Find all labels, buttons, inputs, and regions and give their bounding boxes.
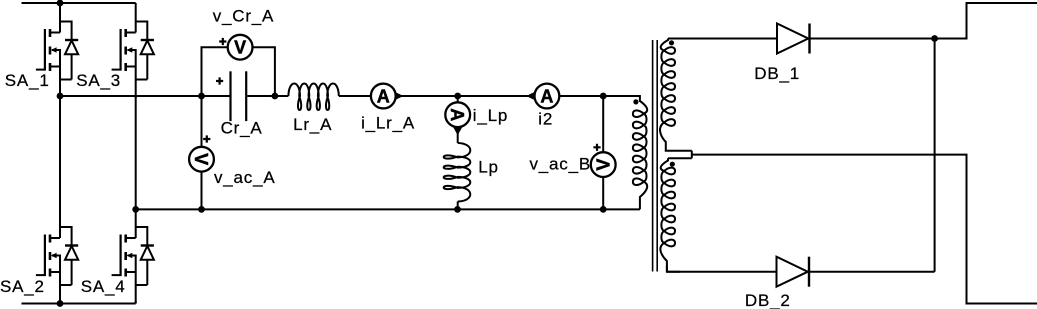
svg-text:V: V xyxy=(594,159,614,171)
node v_ac_B bottom junction xyxy=(600,206,607,213)
wire inductor to ammeter xyxy=(339,95,371,97)
polarity plus v_ac_B xyxy=(593,144,600,151)
node bottom-rail / SA_2 source junction xyxy=(57,300,64,307)
ammeter i_Lr_A arrow xyxy=(396,92,404,100)
wire center-tap output stub xyxy=(692,155,1037,304)
node A junction on tank rail xyxy=(57,93,64,100)
node output junction xyxy=(931,35,938,42)
svg-text:v_ac_A: v_ac_A xyxy=(214,168,276,187)
wire i2 to transformer xyxy=(559,95,640,97)
svg-text:A: A xyxy=(540,87,553,107)
svg-text:SA_1: SA_1 xyxy=(5,71,50,90)
transformer secondary top winding xyxy=(660,39,675,151)
svg-text:V: V xyxy=(234,38,246,58)
voltmeter v_ac_A bottom lead xyxy=(201,172,203,210)
wire DB_2 cathode to riser xyxy=(809,271,935,273)
wire secondary bottom to DB_2 xyxy=(667,271,777,273)
wire lower tank rail xyxy=(136,208,640,210)
node Lp bottom junction xyxy=(454,206,461,213)
diode DB_1 triangle xyxy=(777,24,808,54)
transformer secondary bottom winding xyxy=(660,158,675,271)
voltmeter v_ac_A top lead xyxy=(201,96,203,147)
polarity plus Cr_A xyxy=(216,77,223,84)
voltmeter v_ac_A xyxy=(189,147,214,172)
transformer core xyxy=(653,40,658,272)
node voltmeter tap junction xyxy=(198,93,205,100)
ammeter i_Lr_A xyxy=(371,84,396,109)
svg-text:SA_4: SA_4 xyxy=(81,277,126,296)
transformer secondary top exit to tap xyxy=(666,149,692,152)
node v_ac_B tap junction xyxy=(600,93,607,100)
svg-text:DB_1: DB_1 xyxy=(754,64,800,83)
svg-text:V: V xyxy=(191,153,211,165)
polarity plus v_Cr_A xyxy=(219,38,226,45)
node B junction on lower tank rail xyxy=(132,206,139,213)
wire tank rail to capacitor xyxy=(60,95,230,97)
voltmeter v_ac_B top lead xyxy=(602,96,604,152)
diode DB_2 cathode bar xyxy=(808,257,810,287)
wire output positive stub xyxy=(935,3,1037,39)
wire i_Lp to inductor Lp xyxy=(457,127,459,143)
node top-rail / SA_1 drain junction xyxy=(57,0,64,6)
wire bottom DC- rail xyxy=(22,303,136,305)
svg-text:A: A xyxy=(377,87,390,107)
wire left leg (node A vertical) xyxy=(59,96,61,210)
wire DB_1 cathode to output xyxy=(810,38,935,40)
wire right leg (node B vertical) xyxy=(135,96,137,210)
transformer center tap bar xyxy=(668,151,692,159)
wire i_Lp meter lead xyxy=(457,96,459,103)
ammeter i2 xyxy=(535,84,560,109)
transformer primary polarity dot xyxy=(633,99,638,104)
transistor SA_2 xyxy=(36,209,78,304)
inductor Lr_A xyxy=(288,83,338,110)
transistor SA_4 xyxy=(112,209,154,304)
wire capacitor to inductor xyxy=(247,95,288,97)
ammeter i_Lp xyxy=(445,102,470,127)
svg-text:v_ac_B: v_ac_B xyxy=(530,154,592,173)
diode DB_1 cathode bar xyxy=(808,24,810,54)
transformer secondary bottom polarity dot xyxy=(670,162,675,167)
polarity plus v_ac_A xyxy=(203,135,210,142)
inductor Lp xyxy=(444,143,471,202)
capacitor Cr_A plate left xyxy=(229,71,231,121)
transistor SA_3 xyxy=(112,3,154,98)
node v_Cr_A right junction xyxy=(272,93,279,100)
svg-text:v_Cr_A: v_Cr_A xyxy=(213,6,275,25)
svg-text:Lp: Lp xyxy=(478,158,499,177)
voltmeter v_Cr_A leads xyxy=(202,47,275,96)
ammeter i_Lp arrow xyxy=(453,127,462,135)
wire secondary top to DB_1 xyxy=(668,38,777,40)
voltmeter v_ac_B xyxy=(591,152,616,177)
wire top DC+ rail xyxy=(22,2,136,4)
wire ammeter to i2 xyxy=(396,95,535,97)
voltmeter v_ac_B bottom lead xyxy=(602,177,604,210)
voltmeter v_Cr_A xyxy=(228,35,253,60)
wire Lp to lower rail xyxy=(457,202,459,210)
transistor SA_1 xyxy=(36,3,78,98)
transformer primary winding xyxy=(633,95,647,209)
svg-text:SA_3: SA_3 xyxy=(76,71,121,90)
transformer secondary top polarity dot xyxy=(669,40,674,45)
capacitor Cr_A plate right xyxy=(245,71,247,121)
ammeter i2 arrow xyxy=(526,92,534,99)
wire SA_4 source stub xyxy=(135,302,137,304)
diode DB_2 triangle xyxy=(777,257,808,287)
svg-text:i_Lp: i_Lp xyxy=(473,106,508,125)
transformer secondary bottom exit xyxy=(667,266,680,272)
svg-text:A: A xyxy=(447,108,467,121)
node v_ac_A bottom junction xyxy=(198,206,205,213)
wire output riser xyxy=(934,39,936,272)
svg-text:Lr_A: Lr_A xyxy=(293,115,332,134)
svg-text:DB_2: DB_2 xyxy=(745,291,791,309)
svg-text:Cr_A: Cr_A xyxy=(221,119,263,138)
svg-text:i_Lr_A: i_Lr_A xyxy=(361,114,415,133)
svg-text:i2: i2 xyxy=(538,110,553,129)
node i_Lp tap junction xyxy=(454,93,461,100)
svg-text:SA_2: SA_2 xyxy=(0,277,45,296)
wire SA_2 source stub xyxy=(59,302,61,304)
